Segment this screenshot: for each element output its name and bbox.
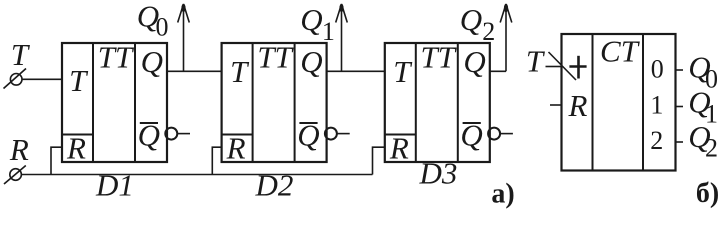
output label Q1 of CT <box>688 85 718 129</box>
wire R riser to D2 <box>212 147 221 174</box>
svg-text:TT: TT <box>257 40 294 75</box>
flip-flop D3 <box>385 43 490 162</box>
wire Q1 stub of CT <box>676 106 684 108</box>
wire Q of D3 to Q2 riser <box>490 70 506 72</box>
svg-text:D3: D3 <box>419 156 458 191</box>
svg-text:2: 2 <box>482 17 495 46</box>
input terminal R (open circle with slash) <box>4 166 26 185</box>
svg-text:б): б) <box>696 178 719 209</box>
svg-text:T: T <box>69 63 89 98</box>
svg-text:R: R <box>226 131 246 166</box>
svg-text:Q: Q <box>463 44 485 79</box>
svg-text:D1: D1 <box>95 168 134 203</box>
pin label Qbar of D1 <box>138 118 160 153</box>
wire Q of D1 to T of D2 <box>167 70 222 72</box>
svg-text:Q: Q <box>300 44 322 79</box>
svg-text:2: 2 <box>705 134 718 163</box>
arrowhead Q2 <box>500 4 512 23</box>
svg-text:T: T <box>393 54 413 89</box>
svg-text:R: R <box>66 131 86 166</box>
svg-text:1: 1 <box>322 17 335 46</box>
svg-text:R: R <box>9 132 29 167</box>
node label Q0 <box>137 0 169 41</box>
svg-text:TT: TT <box>421 40 458 75</box>
output label Q0 of CT <box>688 50 718 94</box>
wire Q0 stub of CT <box>676 69 684 71</box>
arrowhead Q0 <box>178 4 190 23</box>
wire Q2 riser <box>505 4 507 71</box>
wire Q1 riser <box>341 4 343 71</box>
svg-text:1: 1 <box>650 91 663 120</box>
svg-text:CT: CT <box>600 34 641 69</box>
svg-text:0: 0 <box>651 55 664 84</box>
pin label Qbar of D3 <box>460 118 482 153</box>
arrowhead Q1 <box>336 4 348 23</box>
dynamic input slash CT <box>549 52 577 80</box>
flip-flop D1 <box>62 43 167 162</box>
inversion bubble Qbar D1 <box>165 128 177 140</box>
wire R riser to D1 <box>51 147 62 174</box>
output label Q2 of CT <box>688 119 718 162</box>
svg-text:0: 0 <box>156 12 169 41</box>
svg-text:а): а) <box>491 179 514 210</box>
node label Q2 <box>460 2 495 46</box>
wire R input of CT <box>550 104 562 106</box>
inversion bubble Qbar D2 <box>325 128 337 140</box>
svg-text:Q: Q <box>141 44 163 79</box>
svg-text:T: T <box>11 37 31 72</box>
wire Qbar stub D2 <box>337 133 350 135</box>
inversion bubble Qbar D3 <box>488 128 500 140</box>
wire R riser to D3 <box>373 147 385 174</box>
svg-text:T: T <box>526 44 546 79</box>
flip-flop D2 <box>222 43 327 162</box>
counter CT box <box>562 34 676 171</box>
svg-text:R: R <box>568 88 588 123</box>
svg-text:TT: TT <box>98 40 135 75</box>
pin label Qbar of D2 <box>297 118 319 153</box>
svg-text:T: T <box>230 54 250 89</box>
wire Q2 stub of CT <box>676 141 684 143</box>
svg-text:R: R <box>389 131 409 166</box>
input terminal T (open circle with slash) <box>4 69 27 89</box>
svg-text:Q: Q <box>300 2 322 37</box>
wire T input of CT <box>546 66 562 68</box>
svg-text:D2: D2 <box>255 168 294 203</box>
svg-text:2: 2 <box>650 126 663 155</box>
wire Qbar stub D1 <box>177 133 190 135</box>
wire Qbar stub D3 <box>500 133 513 135</box>
wire R bus <box>21 174 372 176</box>
wire Q0 riser <box>183 4 185 71</box>
plus sign counting input CT <box>569 56 586 79</box>
wire Q of D2 to T of D3 <box>327 70 385 72</box>
node label Q1 <box>300 2 335 46</box>
wire T input to D1 <box>22 78 62 80</box>
svg-text:Q: Q <box>460 2 482 37</box>
